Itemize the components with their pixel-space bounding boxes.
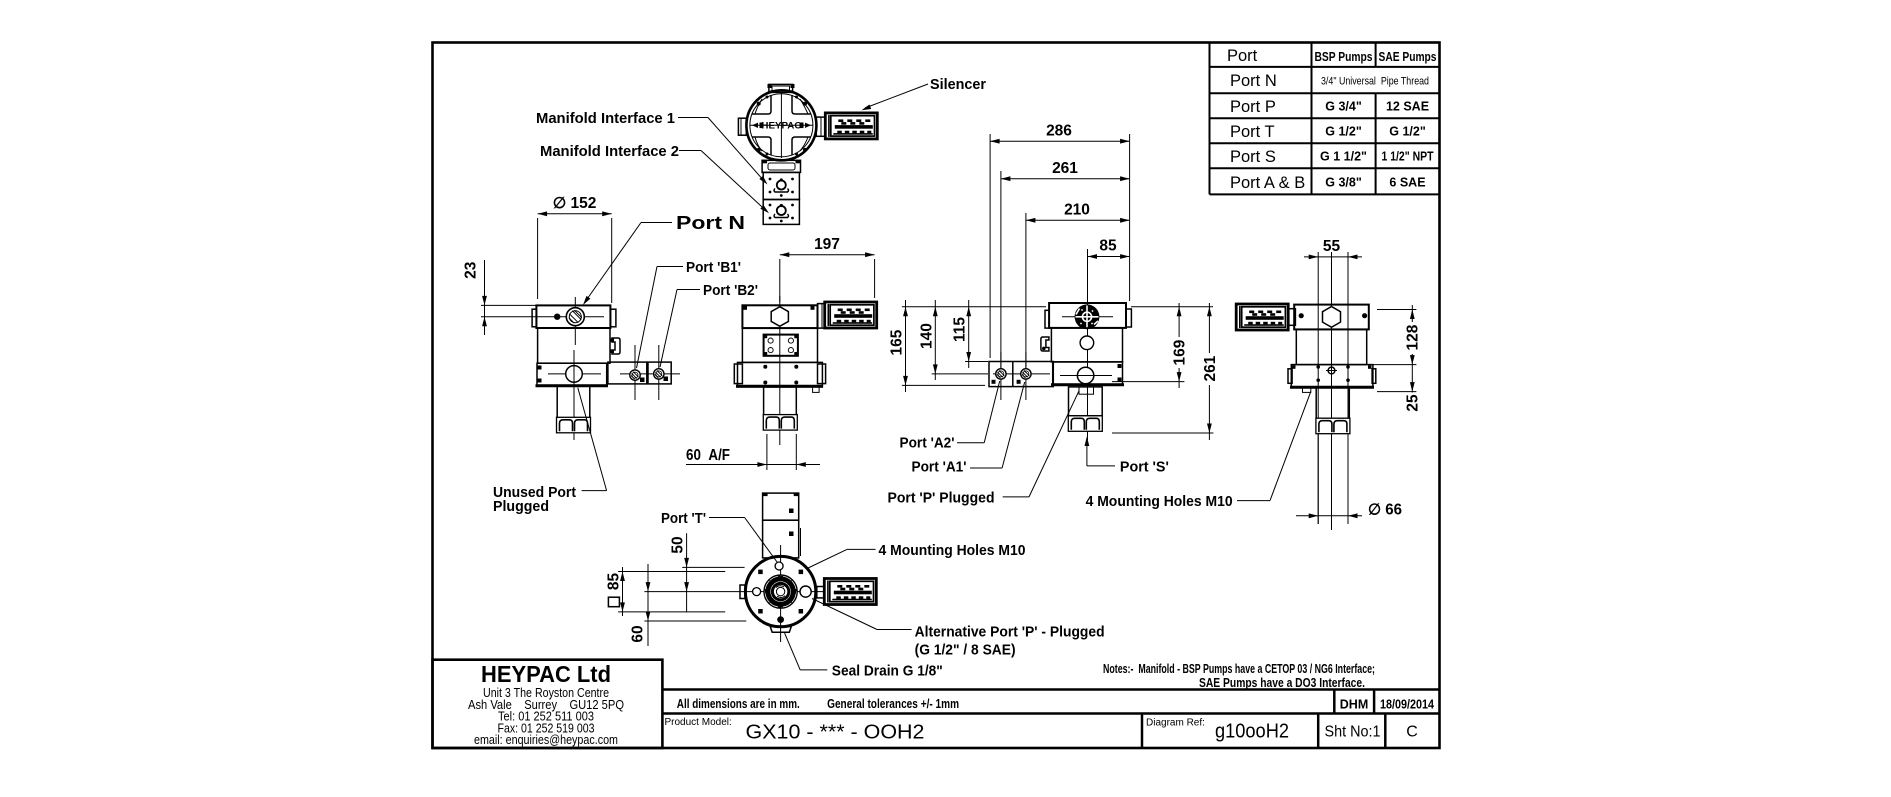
svg-text:g10ooH2: g10ooH2 xyxy=(1215,721,1289,743)
svg-text:Port 'B2': Port 'B2' xyxy=(703,282,758,299)
svg-text:GX10 - *** - OOH2: GX10 - *** - OOH2 xyxy=(746,721,925,744)
svg-text:1 1/2" NPT: 1 1/2" NPT xyxy=(1382,150,1434,164)
svg-text:197: 197 xyxy=(814,236,840,253)
svg-text:Sht No:1: Sht No:1 xyxy=(1325,724,1381,741)
svg-text:85: 85 xyxy=(606,573,623,591)
svg-text:G 3/8": G 3/8" xyxy=(1325,176,1362,190)
svg-text:Port 'B1': Port 'B1' xyxy=(686,259,741,276)
svg-text:Port 'A2': Port 'A2' xyxy=(900,435,955,452)
svg-text:∅ 152: ∅ 152 xyxy=(553,195,597,212)
svg-text:G 1 1/2": G 1 1/2" xyxy=(1320,150,1367,164)
svg-text:Manifold Interface 2: Manifold Interface 2 xyxy=(540,143,679,160)
svg-text:Port: Port xyxy=(1227,47,1258,65)
svg-text:25: 25 xyxy=(1405,394,1422,412)
svg-text:G 1/2": G 1/2" xyxy=(1389,125,1426,139)
svg-text:All dimensions are in mm.: All dimensions are in mm. xyxy=(677,697,800,711)
svg-text:G 1/2": G 1/2" xyxy=(1325,125,1362,139)
svg-text:G 3/4": G 3/4" xyxy=(1325,100,1362,114)
svg-text:115: 115 xyxy=(952,317,969,342)
svg-text:165: 165 xyxy=(889,329,906,355)
svg-text:General tolerances +/- 1mm: General tolerances +/- 1mm xyxy=(827,697,959,711)
svg-text:6 SAE: 6 SAE xyxy=(1389,176,1425,190)
svg-text:(G 1/2" / 8 SAE): (G 1/2" / 8 SAE) xyxy=(915,642,1016,659)
svg-text:Plugged: Plugged xyxy=(493,498,549,515)
svg-text:C: C xyxy=(1406,724,1418,741)
svg-text:email: enquiries@heypac.com: email: enquiries@heypac.com xyxy=(474,733,618,747)
svg-text:Port 'A1': Port 'A1' xyxy=(912,459,967,476)
svg-text:128: 128 xyxy=(1405,324,1422,350)
svg-text:Alternative Port 'P' - Plugged: Alternative Port 'P' - Plugged xyxy=(915,624,1105,641)
svg-text:DHM: DHM xyxy=(1340,698,1368,712)
svg-text:Port P: Port P xyxy=(1230,98,1276,116)
svg-text:Port N: Port N xyxy=(1230,72,1277,90)
svg-text:HEYPAC Ltd: HEYPAC Ltd xyxy=(481,661,611,687)
svg-text:60: 60 xyxy=(630,625,647,642)
svg-text:Diagram Ref:: Diagram Ref: xyxy=(1146,718,1205,729)
svg-text:Port S: Port S xyxy=(1230,148,1276,166)
svg-text:4 Mounting Holes M10: 4 Mounting Holes M10 xyxy=(1086,493,1233,510)
svg-text:169: 169 xyxy=(1172,339,1189,365)
svg-text:4 Mounting Holes M10: 4 Mounting Holes M10 xyxy=(879,542,1026,559)
svg-text:Port N: Port N xyxy=(676,213,745,233)
svg-text:Port A & B: Port A & B xyxy=(1230,174,1305,192)
svg-text:Port 'S': Port 'S' xyxy=(1120,459,1169,476)
svg-text:BSP Pumps: BSP Pumps xyxy=(1315,50,1373,64)
svg-text:SAE Pumps have a DO3 Interface: SAE Pumps have a DO3 Interface. xyxy=(1199,676,1365,690)
svg-text:Notes:- Manifold - BSP Pumps: Notes:- Manifold - BSP Pumps have a CETO… xyxy=(1103,662,1375,676)
svg-text:18/09/2014: 18/09/2014 xyxy=(1380,698,1434,712)
svg-text:210: 210 xyxy=(1064,202,1090,219)
svg-text:Port 'T': Port 'T' xyxy=(661,510,706,527)
svg-text:261: 261 xyxy=(1052,160,1078,177)
svg-text:∅ 66: ∅ 66 xyxy=(1368,502,1402,519)
svg-text:Product Model:: Product Model: xyxy=(665,717,732,728)
svg-text:Silencer: Silencer xyxy=(930,76,986,93)
svg-text:140: 140 xyxy=(919,323,936,349)
svg-text:Seal Drain G 1/8": Seal Drain G 1/8" xyxy=(832,663,943,680)
svg-text:Port T: Port T xyxy=(1230,123,1275,141)
svg-text:85: 85 xyxy=(1099,238,1117,255)
svg-text:23: 23 xyxy=(463,261,480,279)
svg-text:3/4" Universal Pipe Thread: 3/4" Universal Pipe Thread xyxy=(1321,76,1429,88)
svg-text:12 SAE: 12 SAE xyxy=(1386,100,1429,114)
svg-text:286: 286 xyxy=(1046,123,1072,140)
svg-text:Port 'P' Plugged: Port 'P' Plugged xyxy=(888,490,995,507)
svg-text:Manifold Interface 1: Manifold Interface 1 xyxy=(536,110,675,127)
svg-text:50: 50 xyxy=(670,536,687,553)
svg-text:SAE Pumps: SAE Pumps xyxy=(1379,50,1437,64)
svg-text:HEYPAC: HEYPAC xyxy=(761,121,802,131)
svg-text:60 A/F: 60 A/F xyxy=(686,447,730,464)
svg-text:261: 261 xyxy=(1202,355,1219,381)
